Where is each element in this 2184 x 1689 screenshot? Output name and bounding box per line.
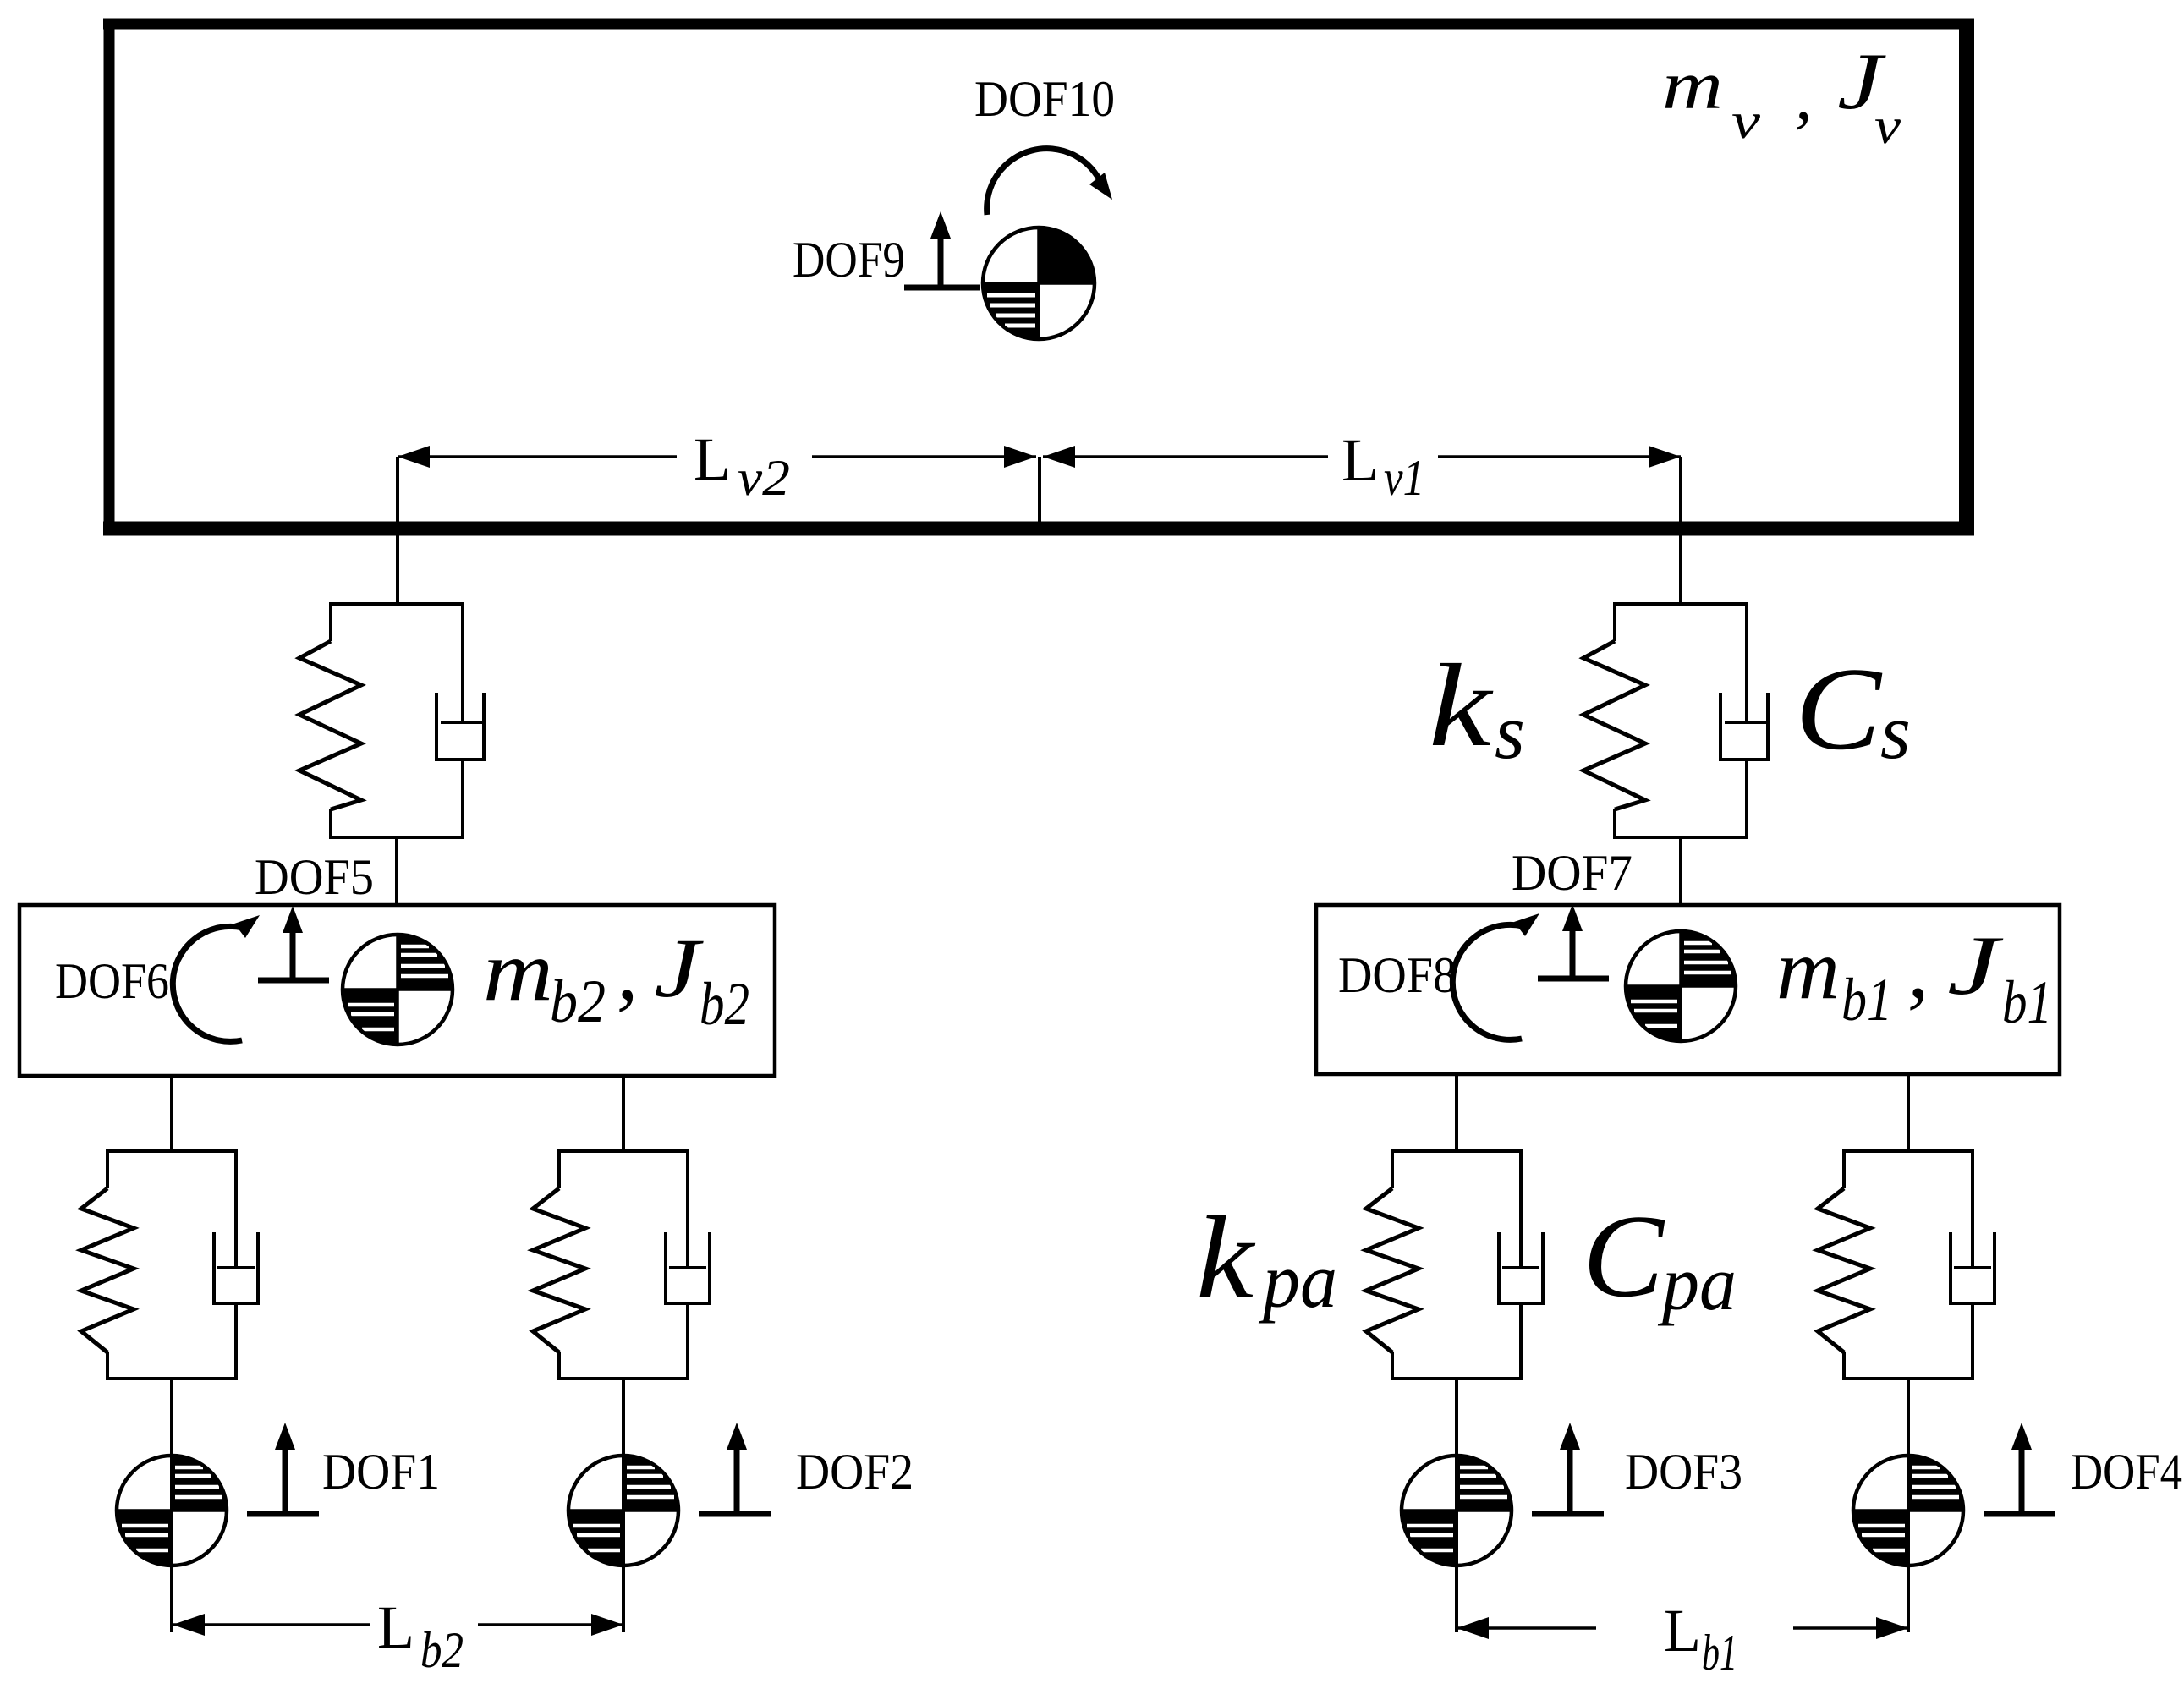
svg-text:b2: b2 xyxy=(420,1622,464,1678)
wire through wheel mass 1 xyxy=(170,1457,173,1632)
damper (primary B (wheel 2)) xyxy=(686,1149,689,1269)
bogie 1 mass block (m_b1, J_b1) xyxy=(1316,905,2060,1074)
svg-text:b1: b1 xyxy=(1841,966,1892,1034)
svg-text:L: L xyxy=(1342,426,1379,494)
svg-text:m: m xyxy=(483,924,553,1019)
svg-text:b2: b2 xyxy=(550,968,606,1035)
spring (primary A (wheel 1)) xyxy=(106,1149,109,1188)
svg-text:pa: pa xyxy=(1258,1237,1337,1324)
bogie 2 center of mass symbol xyxy=(343,935,453,1045)
svg-text:m: m xyxy=(1776,922,1840,1017)
svg-text:DOF6: DOF6 xyxy=(55,953,169,1009)
primary suspension assembly C (wheel 3): top bar xyxy=(1392,1149,1521,1153)
svg-text:,: , xyxy=(1907,921,1929,1017)
vehicle center of mass symbol xyxy=(983,228,1095,339)
wire through wheel mass 4 xyxy=(1907,1457,1910,1632)
primary suspension assembly D (wheel 4): top bar xyxy=(1844,1149,1973,1153)
node: car body centre tick xyxy=(1038,457,1041,528)
svg-text:DOF8: DOF8 xyxy=(1338,947,1457,1003)
wire: left secondary suspension to bogie 2 xyxy=(395,837,398,907)
primary suspension assembly A (wheel 1): top bar xyxy=(107,1149,236,1153)
svg-text:DOF3: DOF3 xyxy=(1625,1444,1742,1500)
svg-text:,: , xyxy=(1795,58,1813,134)
DOF5 vertical arrow xyxy=(258,978,329,984)
DOF3 vertical arrow xyxy=(1532,1511,1604,1517)
wire: primary suspension to wheel mass (A (wheel 1)) xyxy=(170,1379,173,1457)
damper C_s xyxy=(1745,602,1748,724)
primary suspension assembly A (wheel 1): bottom bar xyxy=(106,1377,238,1380)
svg-text:DOF4: DOF4 xyxy=(2071,1444,2182,1500)
DOF4 vertical arrow xyxy=(1984,1511,2055,1517)
wheel mass 4 center of mass symbol (DOF4) xyxy=(1853,1456,1963,1566)
svg-text:L: L xyxy=(377,1593,414,1661)
damper (primary A (wheel 1)) xyxy=(234,1149,238,1269)
dimension L_v1 xyxy=(1043,455,1328,458)
svg-text:v2: v2 xyxy=(738,450,790,506)
svg-text:v: v xyxy=(1874,98,1901,154)
wire through wheel mass 2 xyxy=(622,1457,625,1632)
wire: bogie to primary suspension (wheel 4) xyxy=(1907,1076,1910,1153)
dimension L_v2 xyxy=(398,455,677,458)
svg-text:,: , xyxy=(617,923,639,1018)
wire: primary suspension to wheel mass (C (wheel 3)) xyxy=(1455,1379,1458,1457)
DOF2 vertical arrow xyxy=(699,1511,771,1517)
spring (primary D (wheel 4)) xyxy=(1842,1149,1846,1188)
svg-text:k: k xyxy=(1196,1193,1256,1324)
wire: bogie to primary suspension (wheel 3) xyxy=(1455,1076,1458,1153)
svg-text:L: L xyxy=(1664,1597,1701,1664)
svg-text:C: C xyxy=(1583,1191,1665,1322)
dimension L_b2 xyxy=(173,1623,370,1626)
svg-text:J: J xyxy=(1947,919,2004,1012)
damper (primary C (wheel 3)) xyxy=(1519,1149,1523,1269)
secondary suspension assembly right: bottom bar xyxy=(1613,836,1748,839)
svg-text:C: C xyxy=(1795,644,1883,775)
svg-text:DOF2: DOF2 xyxy=(796,1444,914,1500)
svg-text:v: v xyxy=(1731,93,1760,149)
svg-text:DOF7: DOF7 xyxy=(1512,845,1633,901)
svg-text:pa: pa xyxy=(1657,1240,1737,1326)
wheel mass 1 center of mass symbol (DOF1) xyxy=(117,1456,227,1566)
dimension L_b1 xyxy=(1457,1626,1596,1630)
secondary suspension assembly left: top bar xyxy=(331,602,463,606)
svg-text:J: J xyxy=(654,921,705,1015)
secondary suspension assembly right: top bar xyxy=(1615,602,1747,606)
spring (primary B (wheel 2)) xyxy=(557,1149,561,1188)
DOF8 rotation arrow xyxy=(1452,924,1523,1039)
DOF7 vertical arrow xyxy=(1538,976,1609,982)
spring k_s xyxy=(1613,602,1616,641)
wire through wheel mass 3 xyxy=(1455,1457,1458,1632)
primary suspension assembly B (wheel 2): top bar xyxy=(559,1149,688,1153)
DOF1 vertical arrow xyxy=(247,1511,319,1517)
DOF9 vertical arrow xyxy=(904,285,980,291)
svg-text:DOF5: DOF5 xyxy=(255,849,374,905)
svg-text:m: m xyxy=(1662,47,1723,123)
svg-text:DOF1: DOF1 xyxy=(322,1444,440,1500)
wire: bogie to primary suspension (wheel 1) xyxy=(170,1076,173,1153)
svg-text:b1: b1 xyxy=(2002,968,2052,1036)
DOF10 rotation arrow xyxy=(987,149,1102,215)
wheel mass 3 center of mass symbol (DOF3) xyxy=(1402,1456,1512,1566)
wheel mass 2 center of mass symbol (DOF2) xyxy=(568,1456,678,1566)
damper (left secondary) xyxy=(461,602,464,724)
svg-text:b2: b2 xyxy=(700,970,749,1038)
svg-text:k: k xyxy=(1429,640,1494,771)
primary suspension assembly D (wheel 4): bottom bar xyxy=(1842,1377,1974,1380)
wire: primary suspension to wheel mass (B (wheel 2)) xyxy=(622,1379,625,1457)
svg-text:b1: b1 xyxy=(1702,1625,1737,1681)
wire: primary suspension to wheel mass (D (wheel 4)) xyxy=(1907,1379,1910,1457)
svg-text:v1: v1 xyxy=(1384,450,1424,506)
spring (left secondary) xyxy=(329,602,332,641)
DOF6 rotation arrow xyxy=(173,926,243,1041)
wire: bogie to primary suspension (wheel 2) xyxy=(622,1076,625,1153)
vehicle car body mass block (m_v, J_v) xyxy=(103,19,1974,30)
svg-text:DOF10: DOF10 xyxy=(974,71,1115,127)
secondary suspension assembly left: bottom bar xyxy=(329,836,464,839)
wire: right secondary suspension to car body xyxy=(1679,457,1682,606)
spring (primary C (wheel 3)) xyxy=(1391,1149,1394,1188)
primary suspension assembly B (wheel 2): bottom bar xyxy=(557,1377,689,1380)
damper (primary D (wheel 4)) xyxy=(1971,1149,1974,1269)
svg-text:L: L xyxy=(694,425,731,493)
svg-text:s: s xyxy=(1495,688,1525,775)
primary suspension assembly C (wheel 3): bottom bar xyxy=(1391,1377,1523,1380)
wire: right secondary suspension to bogie 1 xyxy=(1679,837,1682,907)
bogie 2 mass block (m_b2, J_b2) xyxy=(19,905,775,1076)
svg-text:DOF9: DOF9 xyxy=(793,232,905,288)
bogie 1 center of mass symbol xyxy=(1626,931,1736,1041)
svg-text:s: s xyxy=(1880,688,1911,775)
wire: left secondary suspension to car body xyxy=(396,457,399,606)
